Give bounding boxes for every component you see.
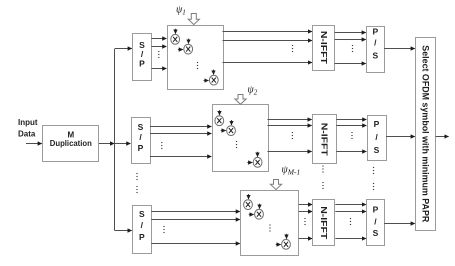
block S/P row1 <box>133 34 152 81</box>
svg-text:P: P <box>374 119 380 129</box>
dots between N-IFFT1 and P/S1 <box>352 45 353 52</box>
block multiplier bank row1 <box>168 26 224 90</box>
wire multiplier bank3 to N-IFFT3 line3 <box>299 238 312 240</box>
dots branch ellipsis below N-IFFT2 <box>322 165 323 172</box>
phase-coefficient arrow into X1-2 (top) <box>188 39 190 44</box>
wire S/P1 to multiplier bank line1 <box>152 38 167 40</box>
wire selector output <box>436 136 449 138</box>
svg-text:N-IFFT: N-IFFT <box>320 123 330 157</box>
wire N-IFFT2 to P/S2 line2 <box>336 125 366 127</box>
wire P/S2 to selector <box>386 136 415 138</box>
multiplier X1-2 <box>184 44 193 54</box>
svg-text:Data: Data <box>18 129 36 138</box>
wire S/P3 to multiplier bank3 line3 <box>151 243 240 245</box>
block P/S row1 <box>367 27 385 73</box>
multiplier X1-1 <box>171 34 180 44</box>
wire N-IFFT2 to P/S2 line3 <box>336 151 366 153</box>
svg-text:P: P <box>139 59 145 69</box>
wire M Duplication to bus junction <box>99 143 114 145</box>
wire multiplier bank2 to N-IFFT2 line2 <box>268 125 312 127</box>
multiplier X3-2 <box>255 209 264 219</box>
block P/S row3 <box>367 200 385 246</box>
wire P/S1 to selector <box>384 48 415 50</box>
dots between multiplier bank1 and N-IFFT1 <box>292 45 293 52</box>
block S/P row2 <box>132 118 151 164</box>
svg-text:P: P <box>138 143 144 153</box>
wire S/P1 to multiplier bank line2 <box>152 46 167 48</box>
block N-IFFT row2 <box>313 115 337 164</box>
block N-IFFT row1 <box>313 26 335 71</box>
dots between multiplier bank3 and N-IFFT3 <box>304 218 305 225</box>
dots between S/P1 and multiplier bank <box>158 51 159 58</box>
svg-text:S: S <box>138 122 144 132</box>
svg-text:S: S <box>373 228 379 238</box>
input arrow into X3-N (left) <box>276 244 281 246</box>
wire multiplier bank1 to N-IFFT1 line3 <box>223 62 313 64</box>
phase-coefficient arrow into X1-1 (top) <box>175 29 177 34</box>
wire input arrow into M Duplication <box>26 143 42 145</box>
svg-text:Select OFDM symbol with minimu: Select OFDM symbol with minimum PAPR <box>421 45 431 222</box>
block M Duplication <box>43 126 99 162</box>
block P/S row2 <box>368 116 387 161</box>
wire bus vertical <box>114 49 116 231</box>
dots between S/P3 and multiplier bank3 <box>163 226 164 233</box>
input arrow into X3-2 (left) <box>249 214 254 216</box>
input arrow into X1-N (left) <box>204 80 209 82</box>
wire multiplier bank2 to N-IFFT2 line3 <box>268 151 312 153</box>
wire P/S3 to selector <box>384 223 415 225</box>
hollow down-arrow for psi1 <box>188 14 199 25</box>
wire N-IFFT3 to P/S3 line2 <box>335 211 366 213</box>
phase-coefficient arrow into X3-2 (top) <box>259 204 261 209</box>
phase-coefficient arrow into X3-1 (top) <box>248 194 250 199</box>
wire multiplier bank1 to N-IFFT1 line2 <box>223 40 313 42</box>
svg-text:S: S <box>139 209 145 219</box>
svg-text:N-IFFT: N-IFFT <box>319 206 329 240</box>
dots between N-IFFT2 and P/S2 <box>351 132 352 139</box>
wire multiplier bank3 to N-IFFT3 line2 <box>299 211 312 213</box>
input arrow into X2-N (left) <box>247 162 252 164</box>
wire N-IFFT1 to P/S1 line1 <box>335 32 366 34</box>
svg-text:Duplication: Duplication <box>50 139 92 148</box>
dots inside multiplier bank row3 <box>269 224 270 231</box>
dots branch ellipsis below S/P2 <box>136 173 137 180</box>
multiplier X3-N <box>282 239 291 249</box>
multiplier X2-1 <box>215 116 224 126</box>
multiplier X1-N <box>209 75 218 85</box>
dots inside multiplier bank row2 <box>236 141 237 148</box>
phase-coefficient arrow into X3-N (top) <box>286 234 288 239</box>
multiplier X2-2 <box>227 126 236 136</box>
input arrow into X2-2 (left) <box>221 130 226 132</box>
wire S/P2 to multiplier bank2 line1 <box>150 126 211 128</box>
input arrow into X1-2 (left) <box>178 49 183 51</box>
dots between multiplier bank2 and N-IFFT2 <box>292 132 293 139</box>
phase-coefficient arrow into X2-2 (top) <box>231 120 233 125</box>
svg-text:Input: Input <box>18 118 38 127</box>
svg-text:P: P <box>373 205 379 215</box>
wire bus to S/P row2 <box>115 143 131 145</box>
wire bus to S/P row1 <box>115 48 132 50</box>
block S/P row3 <box>133 206 152 254</box>
dots inside multiplier bank row1 <box>197 62 198 69</box>
wire S/P1 to multiplier bank line3 <box>152 68 167 70</box>
dots branch ellipsis below P/S2 <box>373 167 374 174</box>
svg-text:S: S <box>374 145 380 155</box>
phase-coefficient arrow into X2-N (top) <box>257 152 259 157</box>
wire S/P2 to multiplier bank2 line2 <box>150 133 211 135</box>
svg-text:S: S <box>372 50 378 60</box>
wire N-IFFT3 to P/S3 line1 <box>335 204 366 206</box>
dots between N-IFFT3 and P/S3 <box>350 218 351 225</box>
svg-text:N-IFFT: N-IFFT <box>319 31 329 65</box>
wire bus to S/P row3 <box>115 230 132 232</box>
wire N-IFFT1 to P/S1 line2 <box>335 39 366 41</box>
phase-coefficient arrow into X1-N (top) <box>213 70 215 75</box>
wire S/P3 to multiplier bank3 line1 <box>151 211 240 213</box>
svg-text:P: P <box>139 232 145 242</box>
wire multiplier bank3 to N-IFFT3 line1 <box>299 204 312 206</box>
wire S/P2 to multiplier bank2 line3 <box>150 156 211 158</box>
wire multiplier bank1 to N-IFFT1 line1 <box>223 31 313 33</box>
block multiplier bank row2 <box>213 105 269 172</box>
block Select OFDM symbol with minimum PAPR <box>416 38 436 231</box>
hollow down-arrow for psiM-1 <box>270 180 281 190</box>
wire N-IFFT3 to P/S3 line3 <box>335 238 366 240</box>
svg-text:P: P <box>372 26 378 36</box>
wire N-IFFT1 to P/S1 line3 <box>335 63 366 65</box>
wire S/P3 to multiplier bank3 line2 <box>151 219 240 221</box>
dots between S/P2 and multiplier bank2 <box>161 142 162 149</box>
multiplier X3-1 <box>244 200 253 210</box>
block multiplier bank row3 <box>241 191 299 256</box>
block N-IFFT row3 <box>313 200 335 246</box>
wire N-IFFT2 to P/S2 line1 <box>336 119 366 121</box>
multiplier X2-N <box>253 157 262 167</box>
hollow down-arrow for psi2 <box>235 95 246 105</box>
phase-coefficient arrow into X2-1 (top) <box>219 110 221 115</box>
wire multiplier bank2 to N-IFFT2 line1 <box>268 119 312 121</box>
